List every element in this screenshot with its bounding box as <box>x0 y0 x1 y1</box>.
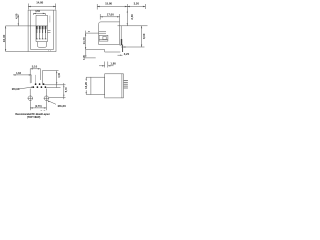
svg-text:11,70: 11,70 <box>82 37 86 44</box>
svg-text:3,20: 3,20 <box>134 2 140 6</box>
svg-text:14,80: 14,80 <box>36 1 43 5</box>
svg-text:2,30: 2,30 <box>130 14 134 20</box>
svg-text:(2,70): (2,70) <box>35 105 42 108</box>
svg-text:3,20: 3,20 <box>124 52 130 56</box>
svg-text:8,00: 8,00 <box>142 33 146 39</box>
svg-text:16,30: 16,30 <box>2 34 6 42</box>
svg-text:5,70: 5,70 <box>65 87 68 92</box>
svg-text:Ø0,90: Ø0,90 <box>12 87 20 91</box>
svg-text:3,30: 3,30 <box>58 72 61 77</box>
svg-text:4,60: 4,60 <box>35 10 40 13</box>
svg-text:Ø3,30: Ø3,30 <box>58 104 67 108</box>
svg-text:13,20: 13,20 <box>84 81 88 88</box>
svg-text:15,80: 15,80 <box>105 1 112 5</box>
svg-text:1,80: 1,80 <box>110 61 116 65</box>
svg-text:4,50: 4,50 <box>15 13 19 19</box>
svg-text:1,82: 1,82 <box>16 72 21 75</box>
svg-text:17,00: 17,00 <box>107 12 114 16</box>
svg-text:(TOP VIEW): (TOP VIEW) <box>27 115 41 119</box>
svg-text:5,10: 5,10 <box>32 65 38 69</box>
svg-text:3,20: 3,20 <box>83 55 86 60</box>
